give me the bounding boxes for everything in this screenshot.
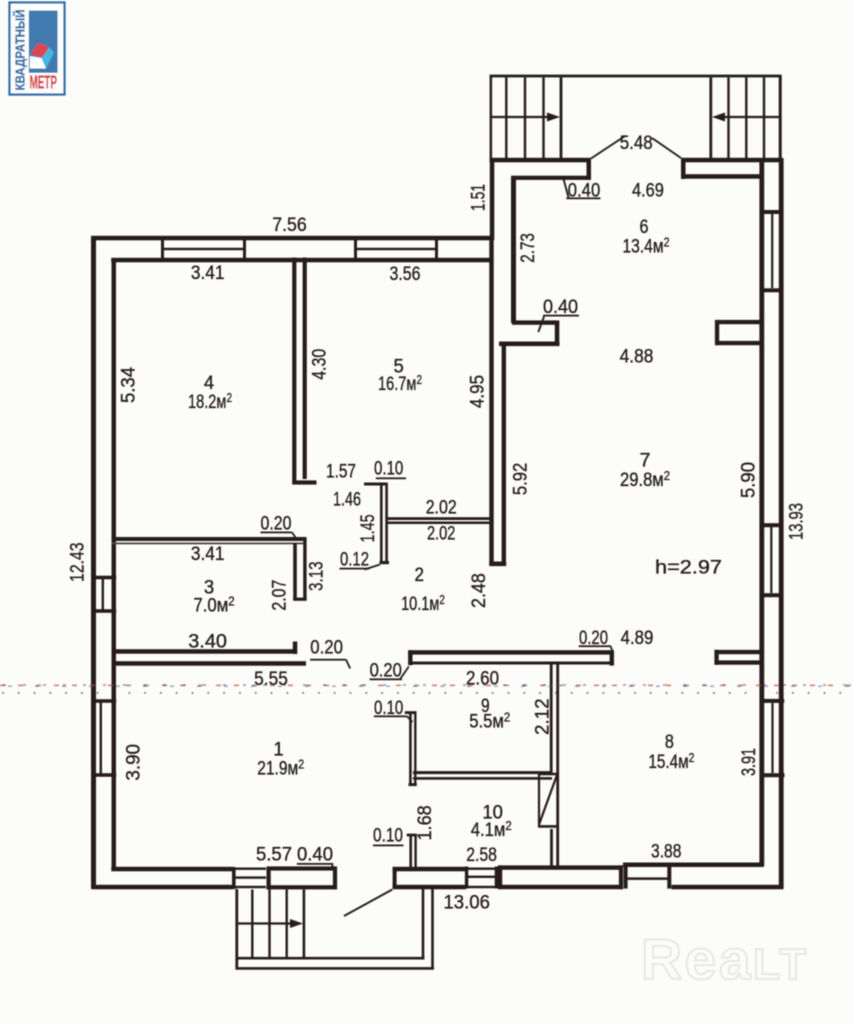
left wall window 2 mid line — [100, 701, 102, 775]
svg-text:4.1м2: 4.1м2 — [471, 818, 512, 841]
svg-text:3.56: 3.56 — [390, 263, 421, 285]
svg-text:8: 8 — [665, 731, 674, 753]
svg-text:4.89: 4.89 — [621, 627, 654, 649]
logo cube cyan right face — [42, 48, 55, 69]
leader 0.40 room6 — [538, 317, 544, 333]
wall below right stairs top line — [681, 158, 782, 163]
wall 2.60 bottom line — [410, 662, 613, 665]
underline 0.20 room3bottom — [310, 659, 346, 661]
svg-text:5.5м2: 5.5м2 — [469, 710, 510, 733]
logo frame (Kvadratny Metr) — [10, 3, 65, 95]
top wall window 2 sill — [356, 248, 437, 250]
wall between rooms 9-10 and 8 right line — [556, 664, 559, 866]
wall below left stairs top line — [490, 158, 592, 163]
room3 bottom wall upper line — [112, 649, 298, 654]
underline 0.40 terrace — [566, 197, 600, 199]
hook 0.20 room3top — [292, 532, 297, 539]
door room10-room8 frame — [538, 773, 558, 776]
right stair direction arrow — [723, 116, 780, 118]
top wall outer line — [91, 236, 494, 241]
room3 top wall upper line — [112, 537, 307, 541]
wall between rooms 9-10 and 8 left line lower — [550, 829, 553, 866]
bottom wall inner line left segment — [111, 867, 233, 872]
terrace top edge line — [490, 75, 782, 78]
right wall window sill y701 — [760, 699, 784, 703]
room6 left wall — [511, 177, 516, 324]
partition 0.12 leader — [365, 565, 381, 570]
porch right outer edge — [431, 889, 434, 970]
svg-text:2.60: 2.60 — [466, 668, 499, 690]
bottom wall outer line left segment — [91, 885, 233, 890]
svg-text:5.92: 5.92 — [510, 463, 532, 495]
svg-text:0.20: 0.20 — [310, 637, 343, 659]
porch right inner edge — [422, 889, 425, 960]
section dashed line dark dashes — [3, 684, 853, 686]
svg-text:0.40: 0.40 — [568, 179, 601, 201]
top wall inner line — [111, 258, 491, 263]
right stair risers — [727, 78, 729, 159]
bottom wall window(467-496) lines — [465, 868, 498, 870]
terrace left edge line — [490, 75, 493, 159]
underline 0.10 room10 — [373, 845, 404, 847]
underline 0.10 room9 — [374, 715, 407, 717]
bottom wall inner line block4 — [393, 867, 466, 872]
room3 bottom wall lower line — [112, 661, 307, 666]
svg-text:2.02: 2.02 — [427, 523, 455, 545]
svg-text:4.88: 4.88 — [620, 346, 654, 368]
top wall window 2 jambs — [354, 236, 357, 262]
right wall window sill y212 — [760, 210, 784, 214]
wall 2.60 top line — [408, 650, 613, 654]
top wall window 1 jambs — [161, 236, 164, 262]
room10 left partition 0.10 — [409, 835, 412, 868]
svg-text:13.06: 13.06 — [443, 892, 490, 914]
left stair direction arrow — [492, 116, 550, 118]
partition 0.10 (1.45) twin lines — [380, 483, 383, 564]
bottom wall outlined block (porch left) — [267, 866, 338, 870]
svg-text:h=2.97: h=2.97 — [655, 557, 722, 579]
svg-text:3.90: 3.90 — [122, 744, 144, 781]
svg-text:2: 2 — [415, 564, 425, 586]
porch bottom outer line — [236, 967, 434, 970]
leader 0.20 hall — [400, 667, 409, 680]
right wall window sill y595 — [760, 593, 784, 597]
room5/7 wall bottom cap — [489, 562, 506, 567]
svg-text:12.43: 12.43 — [66, 542, 88, 582]
svg-text:2.48: 2.48 — [468, 573, 490, 608]
wall below left stairs right cap — [587, 158, 592, 180]
svg-text:18.2м2: 18.2м2 — [188, 390, 232, 413]
svg-text:7.0м2: 7.0м2 — [193, 594, 234, 617]
room9 partition top cap — [405, 711, 417, 714]
partition 0.10 bottom cap — [380, 561, 390, 564]
svg-text:3.13: 3.13 — [305, 561, 327, 591]
porch left edge — [235, 889, 238, 970]
right wall window sill y290 — [760, 288, 784, 292]
svg-text:2.07: 2.07 — [268, 580, 290, 611]
left wall window 1 mid line — [102, 578, 104, 611]
wall below right stairs bottom line — [681, 174, 762, 179]
section dashed line red dashes — [0, 684, 853, 686]
svg-text:1.51: 1.51 — [468, 184, 490, 211]
wall 2.02 twin lines — [386, 517, 492, 520]
svg-text:21.9м2: 21.9м2 — [257, 757, 304, 780]
svg-text:0.10: 0.10 — [374, 457, 403, 479]
svg-text:2.12: 2.12 — [532, 698, 554, 735]
terrace-to-topwall left wall (1.51) — [490, 158, 495, 240]
wall between rooms 9-10 and 8 left line upper — [550, 664, 553, 773]
svg-text:3.41: 3.41 — [191, 262, 225, 284]
bottom wall window jambs (467-496) — [465, 867, 468, 889]
svg-text:4.30: 4.30 — [308, 349, 330, 380]
svg-text:0.12: 0.12 — [340, 548, 369, 570]
bottom stair risers — [251, 890, 253, 958]
svg-text:5.48: 5.48 — [620, 132, 653, 154]
left wall outer line — [91, 236, 96, 889]
right wall window sill y525 — [760, 523, 784, 527]
svg-text:МЕТР: МЕТР — [29, 72, 57, 93]
bottom stair right edge — [303, 890, 306, 958]
bottom wall left window cap — [232, 867, 236, 889]
bottom wall room8 inner line — [623, 863, 764, 868]
wall 2.60 left cap — [408, 650, 412, 665]
room3 top wall lower line — [112, 543, 307, 545]
right wall chimney stub upper — [715, 320, 762, 324]
bottom wall outlined segment mid — [498, 865, 623, 869]
room9 left partition 0.10 — [409, 712, 412, 786]
svg-text:16.7м2: 16.7м2 — [378, 372, 422, 395]
svg-text:0.20: 0.20 — [370, 660, 402, 682]
svg-text:5.55: 5.55 — [254, 668, 288, 690]
svg-text:2.02: 2.02 — [426, 497, 457, 519]
svg-text:5.57: 5.57 — [256, 844, 292, 866]
leader 0.40 terrace — [563, 177, 569, 198]
right wall inner line — [759, 158, 764, 867]
svg-text:0.40: 0.40 — [297, 844, 333, 866]
svg-text:7.56: 7.56 — [272, 214, 307, 236]
room6 doorway step vertical — [555, 321, 560, 346]
porch bottom inner line — [236, 957, 425, 960]
svg-text:КВАДРАТНЫЙ: КВАДРАТНЫЙ — [13, 9, 28, 90]
top wall window 1 sill — [163, 248, 245, 250]
svg-text:29.8м2: 29.8м2 — [620, 468, 670, 491]
section dotted line small dots — [2, 692, 853, 694]
wall between rooms 4 and 5 — [292, 258, 296, 483]
svg-text:2.73: 2.73 — [517, 233, 539, 263]
svg-text:0.10: 0.10 — [373, 825, 403, 847]
bottom stair direction arrow — [238, 922, 293, 924]
tick 0.40 bottom — [332, 864, 334, 868]
underline 0.40 bottom — [297, 863, 333, 865]
left wall inner line — [112, 258, 117, 869]
svg-text:3.88: 3.88 — [651, 841, 681, 863]
svg-text:1.57: 1.57 — [326, 461, 356, 483]
underline 0.20 room7 — [579, 645, 611, 647]
wall 2.60 right cap — [610, 650, 614, 665]
bottom wall SE window jambs — [624, 863, 628, 889]
svg-text:4.69: 4.69 — [632, 179, 664, 201]
svg-text:5.90: 5.90 — [738, 462, 760, 498]
svg-text:3.91: 3.91 — [738, 748, 760, 776]
left wall window 1 sills — [91, 576, 116, 580]
right stair left edge — [709, 78, 712, 159]
left wall window 2 sills — [91, 699, 116, 703]
svg-text:3.41: 3.41 — [191, 543, 225, 565]
svg-text:5.34: 5.34 — [117, 367, 139, 403]
bottom wall left cap of block4 — [393, 867, 397, 889]
svg-text:0.40: 0.40 — [543, 296, 578, 318]
underline 0.40 room6 — [543, 315, 579, 317]
terrace right edge line — [779, 75, 782, 159]
svg-text:0.10: 0.10 — [374, 697, 403, 719]
room6 doorway step horizontal — [512, 320, 559, 324]
room7 left wall line B (x504) — [502, 343, 506, 566]
svg-text:13.4м2: 13.4м2 — [623, 235, 670, 258]
partition 0.10 top cap — [364, 483, 388, 486]
left stair risers — [505, 78, 507, 159]
right wall outer line — [779, 158, 784, 889]
svg-text:1.46: 1.46 — [333, 488, 361, 510]
wall 4/5 bottom foot — [292, 480, 316, 484]
leader 5.48 left — [591, 136, 625, 159]
door room10-room8 leaf diagonal — [539, 776, 557, 825]
porch doorway leader line — [344, 890, 392, 917]
svg-text:1.68: 1.68 — [414, 805, 436, 840]
tick 0.20 room7 — [611, 646, 613, 652]
room3 right wall (3.13) — [293, 543, 297, 600]
svg-text:4.95: 4.95 — [467, 375, 489, 408]
svg-text:13.93: 13.93 — [786, 503, 808, 540]
right wall chimney stub lower — [715, 650, 763, 654]
hook 0.20 room3bottom — [346, 660, 350, 669]
room9 bottom wall twin lines — [413, 771, 552, 774]
underline 0.20 hall — [370, 678, 402, 680]
bottom wall outer line right segment — [672, 885, 784, 890]
room3 bottom wall upper right cap — [293, 642, 298, 655]
svg-text:15.4м2: 15.4м2 — [648, 750, 694, 773]
left stair right edge — [560, 78, 563, 159]
leader 5.48 right — [652, 138, 681, 158]
wall below right stairs left cap — [681, 158, 686, 179]
logo blue square — [29, 11, 58, 73]
logo cube red top face — [31, 43, 50, 59]
right wall window mid line y214-288 — [771, 214, 773, 288]
svg-text:3.40: 3.40 — [188, 631, 227, 653]
corridor wall at y344 — [499, 342, 560, 347]
logo cube white bottom face — [30, 56, 46, 69]
svg-text:0.20: 0.20 — [261, 513, 292, 535]
svg-text:10.1м2: 10.1м2 — [401, 592, 445, 615]
bottom wall SE window mid line — [626, 877, 669, 880]
bottom wall window(235-260) lines — [233, 868, 266, 870]
right wall window sill y775 — [761, 773, 785, 777]
underline 0.20 room3top — [261, 532, 293, 534]
right wall window mid line y527-593 — [770, 527, 772, 593]
room10 partition top cap — [407, 834, 417, 837]
room5 right wall line A (x491) — [489, 236, 493, 566]
svg-text:ReaLT: ReaLT — [641, 928, 809, 992]
underline 0.12 — [340, 568, 370, 570]
section dashed line blue dashes — [8, 685, 853, 687]
wall below left stairs bottom line — [511, 176, 591, 180]
bottom wall outer line block4 — [393, 885, 466, 890]
svg-text:0.20: 0.20 — [579, 627, 608, 649]
svg-text:2.58: 2.58 — [466, 844, 497, 866]
underline 0.10 room2 — [376, 477, 406, 479]
room9 partition bottom foot — [409, 783, 417, 786]
svg-text:1.45: 1.45 — [357, 514, 379, 542]
right wall window mid line y703-773 — [771, 703, 773, 773]
